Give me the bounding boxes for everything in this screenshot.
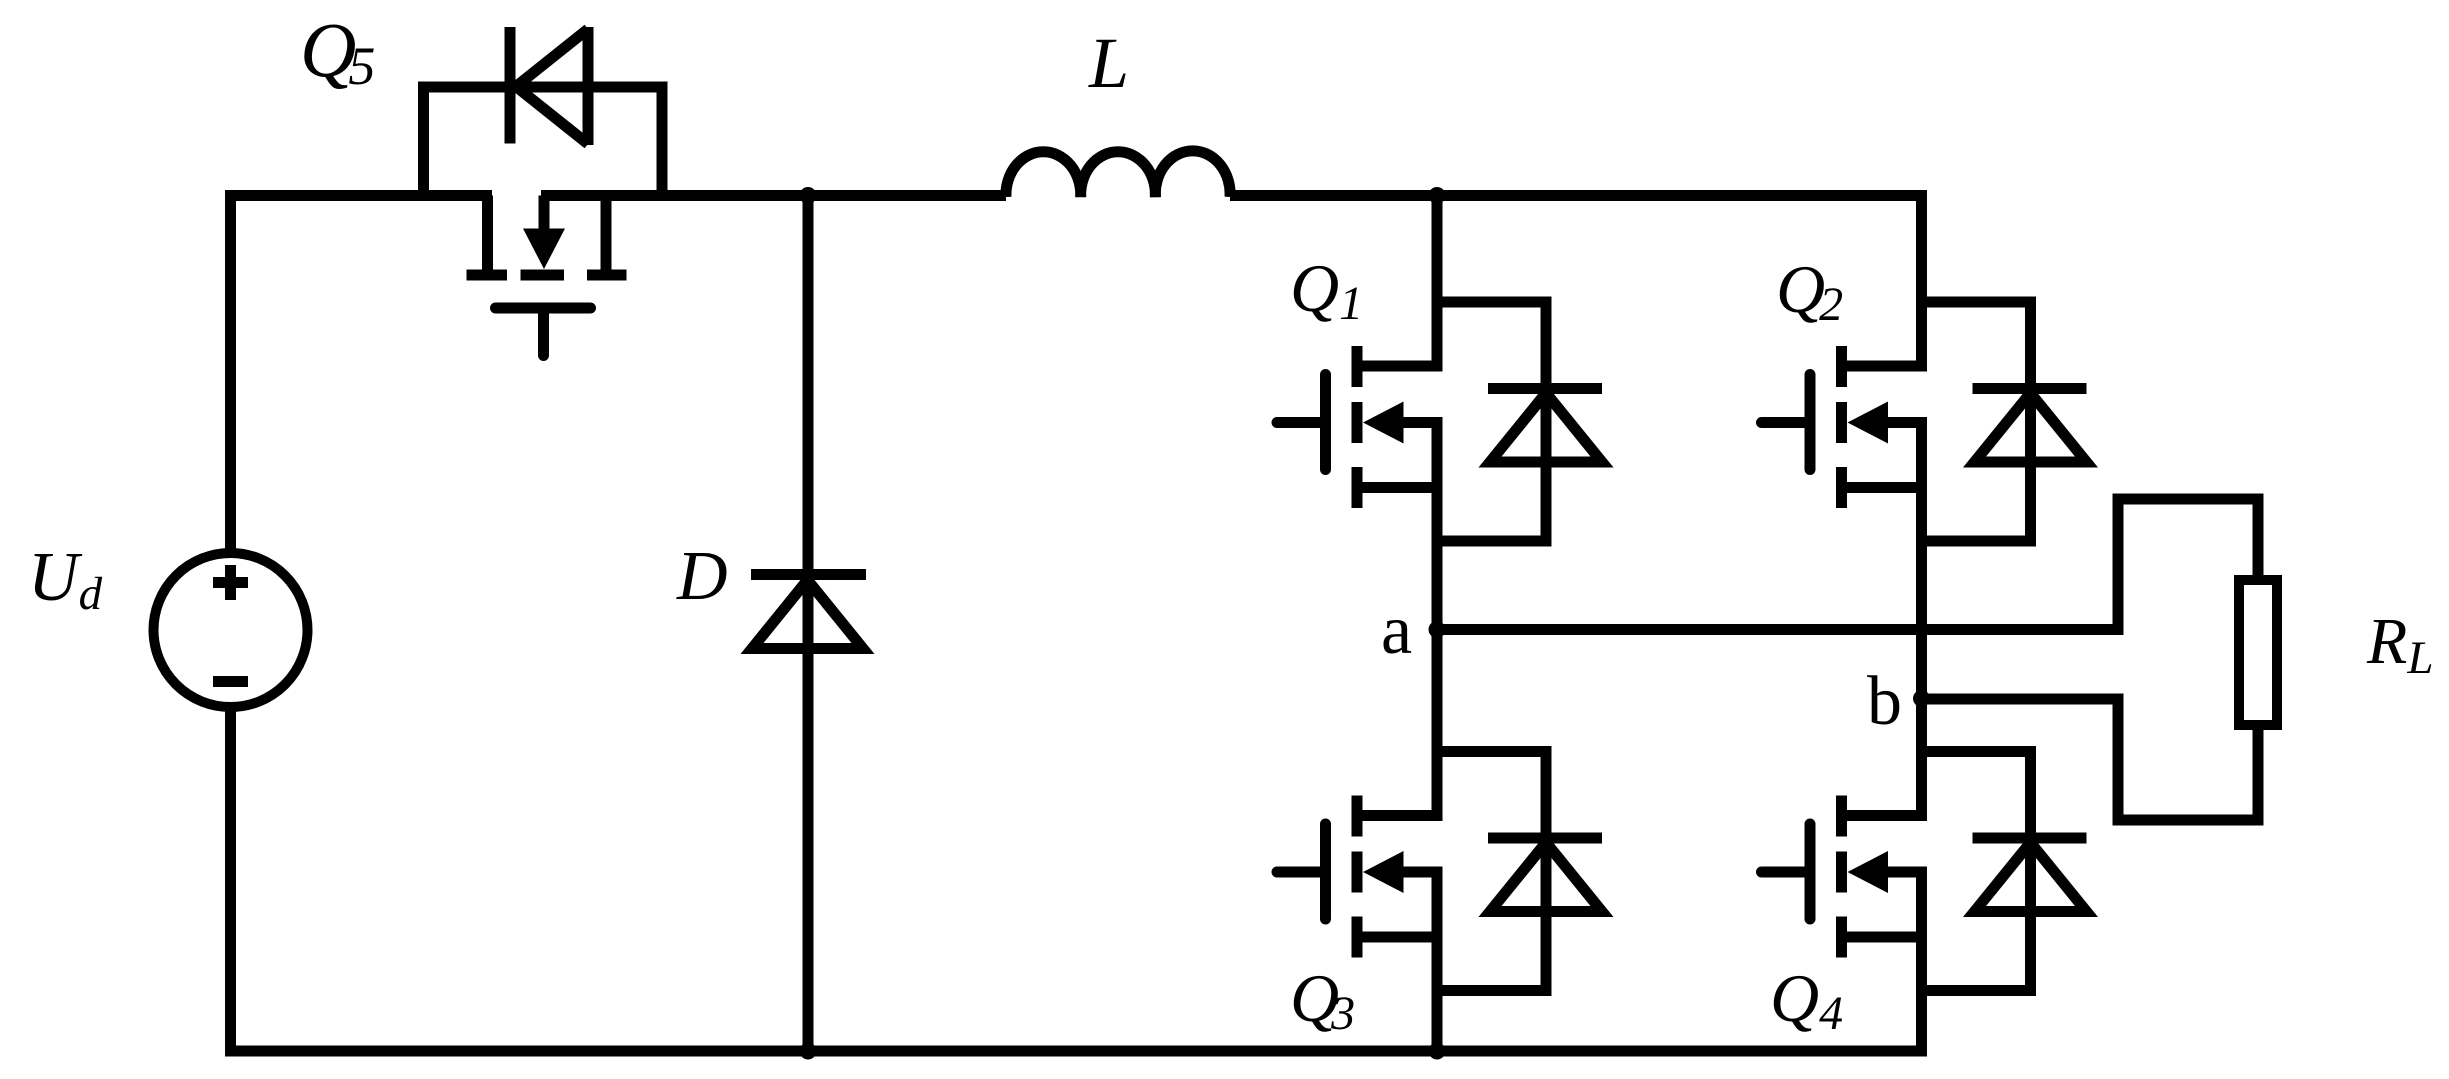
- transistor Q3: [1277, 796, 1443, 958]
- node b junction: [1913, 690, 1930, 707]
- transistor Q1: [1277, 346, 1443, 508]
- wire: D branch lower: [803, 649, 814, 1052]
- diode of Q2: cathode bar: [1973, 383, 2087, 394]
- wire: left vertical lower + bottom rail + Q4 leg lower segment: [231, 707, 1922, 1051]
- wire: Q3 anti-parallel diode loop: [1437, 752, 1546, 991]
- Q4 gate lead: [1762, 867, 1811, 878]
- node junction: top rail / D branch: [800, 187, 817, 204]
- diode of Q1: triangle: [1490, 393, 1602, 462]
- wire: node a to load (upper path): [1437, 499, 2258, 630]
- Q1 body arrow: [1363, 402, 1404, 444]
- Q4 body lead: [1888, 867, 1928, 878]
- Q2 gate bar: [1805, 375, 1816, 470]
- wire: Q1 leg upper (drain): [1432, 196, 1443, 372]
- Q2 body lead: [1888, 417, 1928, 428]
- Q5 body lead: [539, 196, 550, 230]
- Q1 channel segments: [1352, 346, 1363, 508]
- diode of Q5: cathode bar: [505, 27, 516, 144]
- Q5 gate lead: [538, 313, 549, 356]
- wire: Q3 leg lower (source to bottom rail): [1432, 867, 1443, 1052]
- Q3 body arrow: [1363, 851, 1404, 893]
- Q2 channel segments: [1836, 346, 1847, 508]
- wire: Q4 anti-parallel diode loop: [1922, 752, 2031, 991]
- voltage source plus sign: [213, 565, 248, 600]
- Q3 drain stub: [1357, 810, 1443, 821]
- Q3 channel segments: [1352, 796, 1363, 958]
- Q5 body arrow: [523, 229, 565, 270]
- diode of Q1: cathode bar: [1488, 383, 1602, 394]
- svg-text:D: D: [676, 538, 728, 615]
- Q5 source lead: [601, 196, 612, 271]
- wire: Q1/Q3 leg middle (source of Q1 to drain of Q3, node a): [1432, 418, 1443, 822]
- svg-text:a: a: [1381, 592, 1412, 669]
- Q1 gate bar: [1320, 375, 1331, 470]
- Q2 gate lead: [1762, 417, 1811, 428]
- wire: top rail from Q5 source to inductor: [541, 190, 1006, 201]
- node junction: bottom rail / Q3 leg: [1429, 1043, 1446, 1060]
- voltage source Ud circle: [154, 553, 308, 707]
- diode of Q5: triangle: [516, 29, 588, 144]
- Q4 gate bar: [1805, 824, 1816, 919]
- Q3 gate bar: [1320, 824, 1331, 919]
- transistor Q4: [1762, 796, 1928, 958]
- diode of Q3: triangle: [1490, 843, 1602, 912]
- node a junction: [1429, 621, 1446, 638]
- Q5 channel segments: [467, 270, 627, 281]
- diode D cathode bar: [751, 569, 866, 580]
- voltage source minus sign: [213, 676, 248, 687]
- Q2 drain stub: [1842, 361, 1928, 372]
- Q1 gate lead: [1277, 417, 1326, 428]
- wire: node b to load (lower path): [1922, 699, 2259, 820]
- Q4 body arrow: [1848, 851, 1889, 893]
- inductor L: [1006, 151, 1230, 197]
- svg-text:L: L: [1088, 23, 1129, 103]
- resistor R_L: [2239, 580, 2277, 725]
- Q3 gate lead: [1277, 867, 1326, 878]
- Q4 source stub: [1842, 932, 1928, 943]
- Q1 drain stub: [1357, 361, 1443, 372]
- Q4 channel segments: [1836, 796, 1847, 958]
- wire: Q2 anti-parallel diode loop: [1922, 302, 2031, 541]
- diode of Q5: base bar: [583, 27, 594, 145]
- wire: Q1 anti-parallel diode loop: [1437, 302, 1546, 541]
- diode of Q3: cathode bar: [1488, 833, 1602, 844]
- diode of Q2: triangle: [1975, 393, 2087, 462]
- node junction: bottom rail / D branch: [800, 1043, 817, 1060]
- Q2 body arrow: [1848, 402, 1889, 444]
- transistor Q2: [1762, 346, 1928, 508]
- wire: Q5 anti-parallel diode loop: [424, 87, 663, 196]
- Q3 body lead: [1403, 867, 1443, 878]
- Q5 drain lead: [482, 196, 493, 271]
- diode of Q4: triangle: [1975, 843, 2087, 912]
- Q1 source stub: [1357, 482, 1443, 493]
- Q5 gate bar: [496, 303, 591, 314]
- wire: D branch upper: [803, 196, 814, 651]
- transistor Q5 (body): [467, 196, 627, 356]
- Q3 source stub: [1357, 932, 1443, 943]
- svg-text:b: b: [1867, 663, 1902, 740]
- wire: left loop top-left corner (left vertical upper + top rail to Q5 drain): [231, 196, 493, 554]
- wire: Q2/Q4 leg middle (node b): [1916, 418, 1927, 822]
- diode D triangle: [752, 580, 863, 649]
- Q4 drain stub: [1842, 810, 1928, 821]
- node junction: top rail / Q1 leg: [1429, 187, 1446, 204]
- wire: top rail from inductor to Q2 corner + Q2 leg upper segment: [1230, 196, 1922, 372]
- Q2 source stub: [1842, 482, 1928, 493]
- Q1 body lead: [1403, 417, 1443, 428]
- diode of Q4: cathode bar: [1973, 833, 2087, 844]
